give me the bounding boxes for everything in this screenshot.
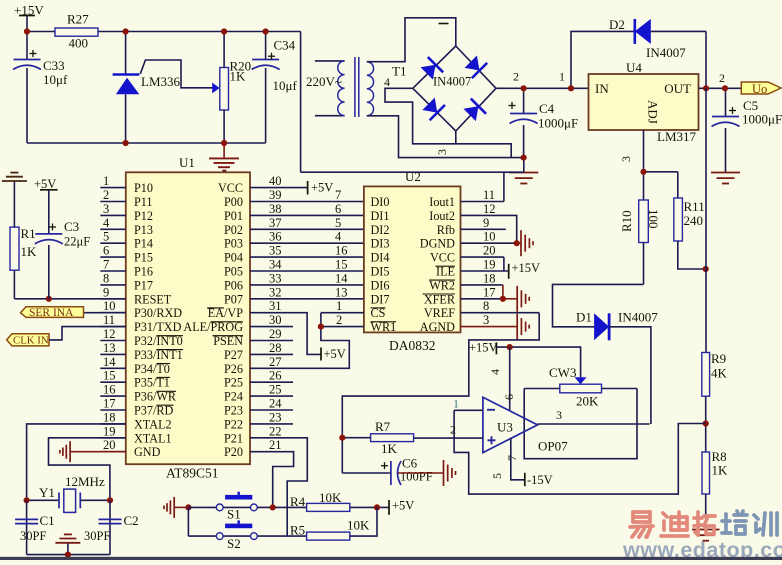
svg-text:10μf: 10μf — [273, 78, 298, 93]
svg-text:1K: 1K — [21, 244, 38, 259]
svg-text:P21: P21 — [224, 431, 243, 445]
svg-text:9: 9 — [103, 285, 109, 299]
svg-text:IN4007: IN4007 — [646, 45, 686, 60]
svg-text:+5V: +5V — [311, 181, 333, 195]
svg-text:RESET: RESET — [134, 292, 172, 306]
svg-text:+15V: +15V — [512, 261, 541, 275]
svg-text:VCC: VCC — [218, 181, 243, 195]
svg-text:34: 34 — [269, 258, 282, 272]
svg-text:3: 3 — [556, 408, 562, 422]
svg-text:240: 240 — [684, 213, 704, 228]
svg-text:DI2: DI2 — [371, 223, 390, 237]
svg-text:28: 28 — [269, 341, 282, 355]
svg-text:1K: 1K — [230, 69, 247, 84]
svg-text:GND: GND — [134, 445, 161, 459]
svg-text:P22: P22 — [224, 417, 243, 431]
svg-text:P27: P27 — [224, 348, 243, 362]
svg-text:P12: P12 — [134, 209, 153, 223]
svg-text:12MHz: 12MHz — [65, 474, 105, 489]
svg-text:10: 10 — [103, 299, 116, 313]
svg-text:DI1: DI1 — [371, 209, 390, 223]
svg-text:P13: P13 — [134, 223, 153, 237]
svg-text:8: 8 — [103, 271, 109, 285]
svg-text:30PF: 30PF — [84, 529, 110, 543]
svg-text:P23: P23 — [224, 404, 243, 418]
svg-text:20: 20 — [103, 438, 116, 452]
svg-text:+5V: +5V — [324, 347, 346, 361]
svg-text:P00: P00 — [224, 195, 243, 209]
svg-text:DI4: DI4 — [371, 251, 390, 265]
svg-text:CW3: CW3 — [549, 365, 576, 380]
svg-text:T1: T1 — [392, 64, 406, 79]
svg-text:4: 4 — [103, 216, 110, 230]
svg-text:C34: C34 — [274, 38, 296, 53]
svg-text:6: 6 — [103, 244, 109, 258]
svg-text:35: 35 — [269, 244, 282, 258]
svg-text:Rfb: Rfb — [437, 223, 455, 237]
svg-text:21: 21 — [269, 438, 282, 452]
svg-text:Iout2: Iout2 — [429, 209, 455, 223]
svg-text:P02: P02 — [224, 223, 243, 237]
svg-text:Uo: Uo — [752, 82, 767, 96]
svg-text:100PF: 100PF — [400, 470, 433, 484]
svg-text:15: 15 — [103, 369, 116, 383]
svg-text:DI3: DI3 — [371, 237, 390, 251]
svg-text:17: 17 — [103, 397, 116, 411]
svg-text:P11: P11 — [134, 195, 153, 209]
svg-text:U3: U3 — [497, 420, 513, 435]
svg-text:20: 20 — [483, 244, 496, 258]
svg-text:19: 19 — [103, 424, 116, 438]
svg-text:P03: P03 — [224, 237, 243, 251]
svg-text:+5V: +5V — [392, 499, 414, 513]
svg-text:P15: P15 — [134, 251, 153, 265]
svg-text:XTAL1: XTAL1 — [134, 431, 172, 445]
svg-text:-15V: -15V — [527, 473, 553, 487]
svg-text:P20: P20 — [224, 445, 243, 459]
svg-text:6: 6 — [335, 202, 341, 216]
svg-text:U1: U1 — [179, 155, 195, 170]
svg-text:P16: P16 — [134, 265, 153, 279]
svg-text:DI6: DI6 — [371, 278, 390, 292]
svg-text:S1: S1 — [227, 507, 241, 522]
svg-text:www.edatop.com: www.edatop.com — [622, 538, 782, 560]
svg-text:26: 26 — [269, 369, 282, 383]
svg-text:P26: P26 — [224, 362, 243, 376]
svg-text:C33: C33 — [43, 58, 65, 73]
svg-text:10: 10 — [483, 230, 496, 244]
svg-text:16: 16 — [335, 244, 348, 258]
svg-text:R9: R9 — [711, 351, 726, 366]
svg-text:12: 12 — [103, 327, 116, 341]
svg-text:100: 100 — [646, 209, 661, 229]
svg-text:Y1: Y1 — [39, 485, 55, 500]
svg-text:27: 27 — [269, 355, 282, 369]
svg-text:AT89C51: AT89C51 — [166, 466, 219, 481]
svg-text:R5: R5 — [290, 523, 305, 538]
svg-text:P01: P01 — [224, 209, 243, 223]
svg-text:3: 3 — [103, 202, 109, 216]
svg-text:OP07: OP07 — [538, 439, 568, 454]
svg-text:XTAL2: XTAL2 — [134, 417, 172, 431]
svg-text:ADJ: ADJ — [646, 100, 661, 124]
svg-text:7: 7 — [103, 258, 109, 272]
svg-text:220V~: 220V~ — [306, 74, 342, 89]
svg-text:CLK IN: CLK IN — [13, 335, 49, 347]
svg-text:14: 14 — [103, 355, 116, 369]
svg-text:P06: P06 — [224, 278, 243, 292]
svg-text:3: 3 — [435, 149, 449, 155]
svg-text:1K: 1K — [712, 463, 729, 478]
svg-text:400: 400 — [69, 36, 89, 51]
svg-text:30PF: 30PF — [20, 529, 46, 543]
svg-text:29: 29 — [269, 327, 282, 341]
svg-text:C2: C2 — [124, 513, 139, 528]
svg-text:VCC: VCC — [430, 251, 455, 265]
svg-text:AGND: AGND — [420, 320, 455, 334]
svg-text:DGND: DGND — [420, 237, 455, 251]
svg-text:9: 9 — [483, 216, 489, 230]
svg-text:LM317: LM317 — [657, 129, 697, 144]
svg-text:14: 14 — [335, 271, 348, 285]
svg-text:R10: R10 — [619, 210, 634, 232]
svg-text:30: 30 — [269, 313, 282, 327]
svg-text:3: 3 — [483, 313, 489, 327]
svg-text:18: 18 — [103, 410, 116, 424]
svg-text:U2: U2 — [405, 169, 421, 184]
svg-text:8: 8 — [483, 299, 489, 313]
svg-text:P25: P25 — [224, 376, 243, 390]
svg-text:1000μF: 1000μF — [742, 112, 782, 127]
svg-text:7: 7 — [505, 455, 519, 461]
svg-text:DA0832: DA0832 — [389, 338, 436, 353]
svg-text:1000μF: 1000μF — [538, 116, 578, 131]
svg-text:+15V: +15V — [14, 3, 44, 18]
svg-text:24: 24 — [269, 397, 282, 411]
svg-text:P14: P14 — [134, 237, 153, 251]
svg-text:1: 1 — [559, 70, 565, 84]
svg-text:P30/RXD: P30/RXD — [134, 306, 182, 320]
svg-text:20K: 20K — [576, 394, 599, 409]
svg-text:38: 38 — [269, 202, 282, 216]
svg-text:R7: R7 — [375, 419, 391, 434]
svg-text:+5V: +5V — [34, 177, 56, 191]
svg-text:4: 4 — [488, 369, 502, 375]
svg-text:C1: C1 — [40, 513, 55, 528]
svg-text:IN4007: IN4007 — [433, 75, 471, 89]
svg-text:2: 2 — [336, 313, 342, 327]
svg-text:P31/TXD: P31/TXD — [134, 320, 182, 334]
svg-text:25: 25 — [269, 383, 282, 397]
svg-text:R1: R1 — [21, 226, 36, 241]
svg-text:10K: 10K — [319, 490, 342, 505]
svg-text:OUT: OUT — [664, 81, 691, 96]
svg-text:DI7: DI7 — [371, 292, 390, 306]
svg-text:6: 6 — [502, 394, 516, 400]
svg-text:Iout1: Iout1 — [429, 195, 455, 209]
svg-text:39: 39 — [269, 188, 282, 202]
svg-text:D1: D1 — [576, 310, 592, 325]
svg-text:12: 12 — [483, 202, 496, 216]
svg-text:DI0: DI0 — [371, 195, 390, 209]
svg-text:10μf: 10μf — [43, 72, 68, 87]
svg-text:22μF: 22μF — [64, 235, 90, 249]
svg-text:2: 2 — [103, 188, 109, 202]
svg-text:IN: IN — [595, 81, 609, 96]
svg-text:5: 5 — [335, 216, 341, 230]
svg-text:D2: D2 — [609, 17, 625, 32]
svg-text:40: 40 — [269, 174, 282, 188]
svg-text:7: 7 — [335, 188, 341, 202]
svg-text:1K: 1K — [381, 441, 398, 456]
svg-text:C6: C6 — [402, 456, 418, 471]
svg-text:P04: P04 — [224, 251, 243, 265]
svg-text:23: 23 — [269, 410, 282, 424]
svg-text:R4: R4 — [290, 494, 306, 509]
svg-text:16: 16 — [103, 383, 116, 397]
svg-text:33: 33 — [269, 271, 282, 285]
svg-text:2: 2 — [450, 423, 456, 437]
svg-text:DI5: DI5 — [371, 265, 390, 279]
svg-text:5: 5 — [103, 230, 109, 244]
svg-text:36: 36 — [269, 230, 282, 244]
svg-text:C3: C3 — [64, 219, 79, 234]
svg-text:37: 37 — [269, 216, 282, 230]
svg-text:15: 15 — [335, 258, 348, 272]
svg-text:11: 11 — [483, 188, 495, 202]
svg-text:U4: U4 — [626, 60, 642, 75]
svg-text:P10: P10 — [134, 181, 153, 195]
svg-text:P17: P17 — [134, 278, 153, 292]
svg-text:22: 22 — [269, 424, 282, 438]
svg-text:LM336: LM336 — [141, 74, 181, 89]
svg-text:13: 13 — [103, 341, 116, 355]
svg-text:P07: P07 — [224, 292, 243, 306]
svg-text:R11: R11 — [684, 199, 705, 214]
svg-text:19: 19 — [483, 258, 496, 272]
svg-text:C4: C4 — [539, 101, 555, 116]
svg-text:P24: P24 — [224, 390, 243, 404]
svg-text:4K: 4K — [711, 366, 728, 381]
svg-text:18: 18 — [483, 271, 496, 285]
svg-text:11: 11 — [103, 313, 115, 327]
svg-text:1: 1 — [453, 397, 459, 411]
svg-text:1: 1 — [336, 299, 342, 313]
svg-text:IN4007: IN4007 — [618, 310, 658, 325]
svg-text:P05: P05 — [224, 265, 243, 279]
svg-text:3: 3 — [619, 156, 633, 162]
svg-text:32: 32 — [269, 285, 282, 299]
svg-text:1: 1 — [103, 174, 109, 188]
svg-text:10K: 10K — [347, 518, 370, 533]
svg-text:4: 4 — [335, 230, 342, 244]
svg-text:2: 2 — [513, 70, 519, 84]
svg-text:5: 5 — [490, 473, 504, 479]
svg-text:R27: R27 — [67, 12, 89, 27]
svg-text:SER INA: SER INA — [29, 307, 74, 319]
svg-text:17: 17 — [483, 285, 496, 299]
svg-text:VREF: VREF — [424, 306, 455, 320]
svg-text:4: 4 — [384, 75, 390, 89]
svg-text:+15V: +15V — [469, 341, 498, 355]
svg-text:S2: S2 — [227, 536, 241, 551]
svg-text:31: 31 — [269, 299, 282, 313]
svg-text:13: 13 — [335, 285, 348, 299]
svg-text:2: 2 — [719, 71, 725, 85]
